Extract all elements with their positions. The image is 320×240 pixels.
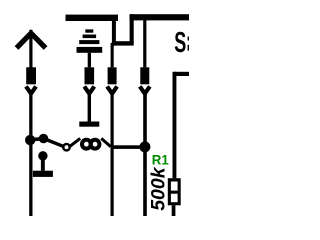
- svg-text:R1: R1: [152, 152, 169, 168]
- svg-text:500k: 500k: [147, 166, 169, 211]
- svg-text:S: S: [174, 27, 186, 59]
